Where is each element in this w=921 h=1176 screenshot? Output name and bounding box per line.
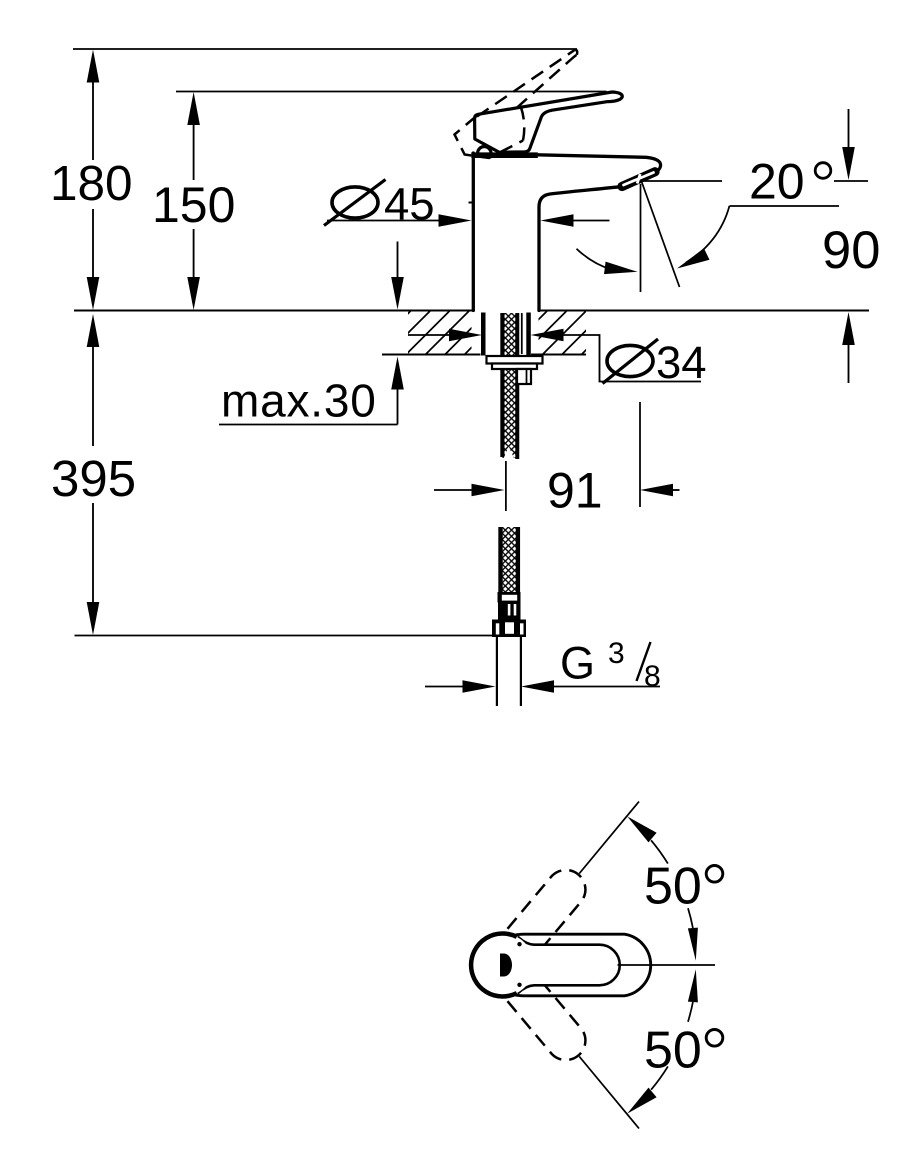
dashed lever rotated down 50 — [508, 980, 586, 1060]
connection tube — [496, 637, 498, 706]
mounting nut on stud — [517, 369, 531, 384]
shank wall right — [526, 313, 531, 356]
dimension 20deg — [643, 180, 722, 182]
lower diagonal 50 line — [579, 1057, 639, 1129]
dashed raised lever underside — [517, 55, 577, 108]
small step tick on left edge — [469, 202, 474, 204]
degree circle for 20 — [815, 163, 831, 179]
dimension max.30 — [397, 242, 399, 279]
deck hatching left — [408, 312, 472, 354]
20deg left arc and arrow — [577, 249, 613, 270]
svg-text:91: 91 — [547, 463, 603, 519]
reference line 150 top — [176, 91, 607, 93]
hose ferrule — [498, 592, 521, 603]
braided hose lower — [500, 527, 519, 595]
svg-text:G: G — [560, 638, 595, 689]
mounting flange plate — [487, 356, 543, 364]
pivot dot top — [517, 942, 521, 946]
deck bottom line — [382, 353, 481, 355]
50deg upper thin arrow at centerline — [688, 928, 698, 961]
svg-text:3: 3 — [608, 637, 625, 670]
bottom reference line 395 — [75, 635, 493, 637]
50deg lower arc seg1 — [651, 1066, 668, 1089]
body top thick line — [471, 152, 538, 158]
extension line hose axis — [505, 461, 507, 511]
aerator slots — [622, 172, 655, 187]
plan centerline — [618, 964, 716, 966]
20deg slanted line — [641, 180, 680, 287]
spout top edge — [537, 155, 661, 172]
svg-text:50: 50 — [644, 1022, 702, 1080]
50deg upper arc seg1 — [651, 840, 668, 863]
hose collar knurl — [498, 603, 521, 621]
dashed raised lever top edge — [477, 50, 574, 116]
dashed lever rotated up 50 — [508, 870, 586, 950]
dashed raised lever root — [455, 116, 524, 158]
mounting washer — [492, 364, 537, 370]
dimension 180 — [87, 50, 100, 83]
dashed raised lever front arc — [521, 106, 525, 141]
dimension 150 — [187, 92, 200, 125]
deck hatching right — [539, 312, 587, 354]
hose torn end — [503, 447, 515, 460]
cartridge D mark — [500, 954, 512, 977]
lever pivot dome — [478, 147, 491, 154]
hex nut G3/8 — [492, 620, 526, 638]
braided hose upper — [502, 313, 518, 458]
reference line 180 top — [73, 48, 577, 50]
svg-text:20: 20 — [749, 154, 805, 210]
dashed raised lever tip — [574, 50, 577, 55]
svg-text:8: 8 — [644, 660, 661, 693]
50deg upper arc seg2 — [688, 908, 693, 928]
dimension 91 — [434, 489, 475, 491]
shank wall left — [481, 313, 486, 356]
dimension Ø45 — [332, 187, 378, 218]
50deg upper arc arrowhead big — [627, 816, 656, 842]
pivot dot bottom — [517, 983, 521, 987]
20deg right arc and arrow — [686, 206, 729, 263]
spout underside and inner column edge — [539, 187, 619, 311]
svg-text:90: 90 — [822, 221, 880, 280]
plan outer lever outline — [512, 934, 651, 996]
plan body circle — [471, 934, 534, 997]
faucet body column left edge — [472, 153, 475, 311]
svg-text:150: 150 — [152, 177, 235, 233]
50deg lower arc seg2 — [688, 1002, 693, 1022]
dimension 90 — [848, 109, 850, 150]
svg-text:180: 180 — [50, 156, 133, 211]
svg-text:50: 50 — [644, 858, 702, 916]
countertop deck line — [74, 309, 473, 311]
plan inner lever outline — [519, 937, 620, 992]
20deg vertical extension line — [640, 184, 642, 292]
svg-text:34: 34 — [656, 337, 707, 388]
dimension Ø34 — [408, 334, 452, 336]
upper diagonal 50 line — [579, 802, 639, 874]
50deg lower thin arrow at centerline — [688, 969, 698, 1002]
svg-text:45: 45 — [384, 179, 435, 230]
dimension 395 — [87, 314, 100, 347]
50deg lower arc arrowhead big — [627, 1088, 656, 1114]
svg-text:max.30: max.30 — [221, 375, 377, 427]
svg-text:395: 395 — [51, 450, 136, 507]
lever solid outline — [475, 92, 623, 152]
extension line spout axis — [639, 402, 641, 507]
